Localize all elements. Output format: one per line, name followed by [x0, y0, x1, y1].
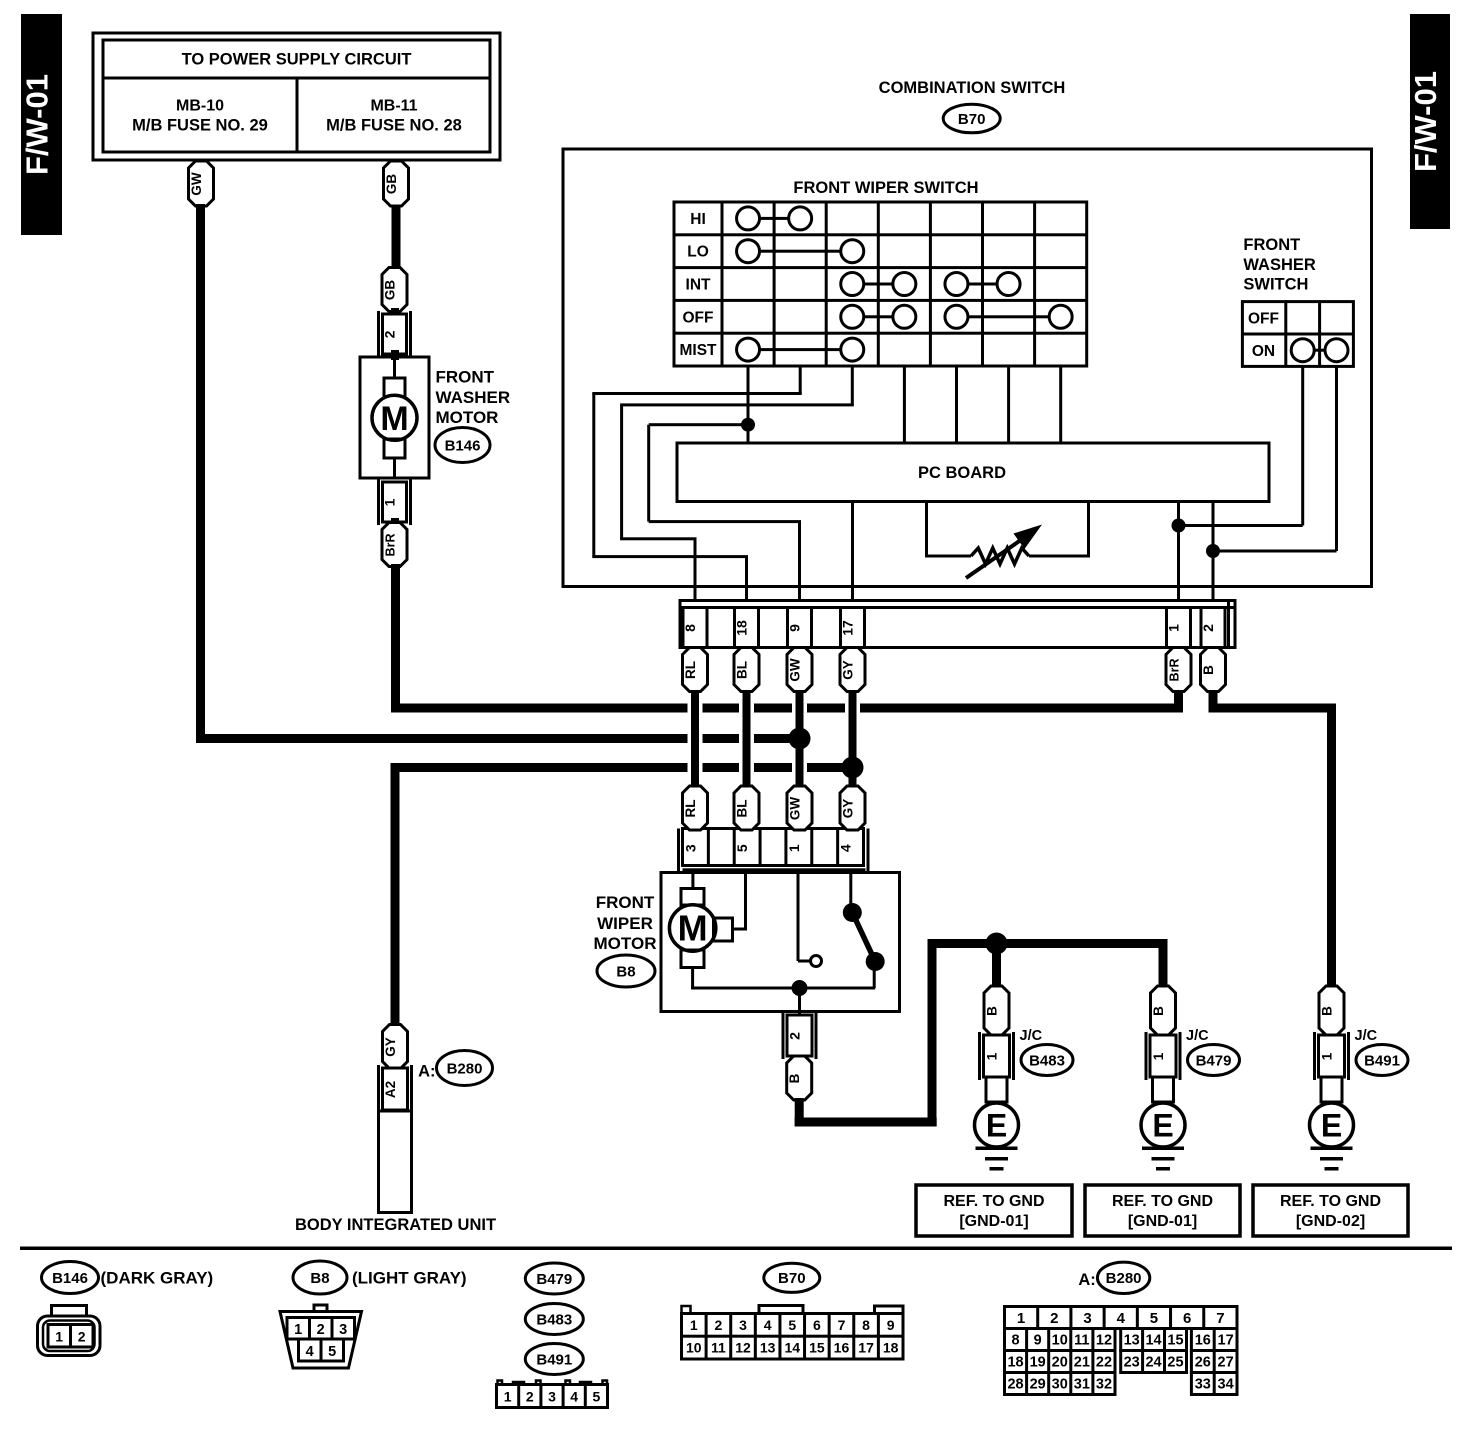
page label tab F/W-01 (right) — [1410, 14, 1450, 229]
svg-text:13: 13 — [1124, 1333, 1140, 1349]
washer motor brush (bottom) — [384, 439, 405, 458]
svg-text:(LIGHT GRAY): (LIGHT GRAY) — [352, 1269, 467, 1288]
svg-text:2: 2 — [787, 1032, 803, 1040]
svg-text:9: 9 — [887, 1317, 895, 1333]
wire: wiper switch col1 to PC board (with junction) — [747, 366, 750, 443]
svg-text:5: 5 — [1150, 1310, 1158, 1327]
svg-text:[GND-02]: [GND-02] — [1296, 1213, 1365, 1230]
svg-text:17: 17 — [858, 1340, 874, 1356]
variable resistor (wiper speed pot) on PC board — [925, 502, 928, 557]
svg-text:B280: B280 — [1106, 1270, 1142, 1287]
svg-text:WIPER: WIPER — [597, 914, 653, 933]
svg-text:11: 11 — [711, 1340, 726, 1356]
svg-text:18: 18 — [1007, 1355, 1023, 1371]
svg-text:1: 1 — [382, 498, 398, 506]
svg-text:27: 27 — [1218, 1355, 1234, 1371]
wire: wiper switch col2 to connector pin 18 (BL) — [799, 366, 802, 394]
svg-text:RL: RL — [683, 661, 698, 679]
MIST contacts: col1-col3 — [748, 348, 852, 351]
OFF contacts: col3-col4, col5-col7 — [852, 315, 904, 318]
svg-text:E: E — [986, 1108, 1007, 1144]
svg-text:B: B — [1320, 1006, 1335, 1016]
body integrated unit box — [379, 1111, 412, 1213]
connector B70 pin 9 — [788, 608, 812, 648]
svg-text:1: 1 — [1166, 624, 1182, 632]
wiper motor brush (top) — [681, 889, 704, 906]
connector B70 pin 17 — [841, 608, 865, 648]
svg-text:32: 32 — [1096, 1377, 1112, 1393]
svg-text:15: 15 — [809, 1340, 825, 1356]
svg-text:BL: BL — [735, 800, 750, 818]
connector oval B483 — [1021, 1045, 1073, 1076]
wire: wiper switch col4 to PC board — [903, 366, 906, 443]
svg-text:[GND-01]: [GND-01] — [1128, 1213, 1197, 1230]
svg-text:20: 20 — [1052, 1355, 1068, 1371]
svg-text:1: 1 — [690, 1317, 698, 1333]
svg-text:LO: LO — [687, 244, 709, 261]
svg-text:22: 22 — [1096, 1355, 1112, 1371]
svg-text:TO POWER SUPPLY CIRCUIT: TO POWER SUPPLY CIRCUIT — [182, 51, 412, 69]
wiper motor wire pin 5 — [744, 873, 747, 930]
washer switch ON contacts — [1303, 349, 1337, 352]
svg-text:13: 13 — [760, 1340, 776, 1356]
svg-text:B70: B70 — [958, 111, 986, 128]
legend connector drawing B146 (2-pin) — [52, 1306, 87, 1317]
svg-text:1: 1 — [1017, 1310, 1025, 1327]
ground terminal B491 — [1321, 1077, 1342, 1102]
svg-text:25: 25 — [1167, 1355, 1183, 1371]
svg-text:GY: GY — [383, 1037, 398, 1057]
svg-text:1: 1 — [786, 844, 802, 852]
svg-text:4: 4 — [570, 1389, 578, 1405]
svg-text:B: B — [985, 1006, 1000, 1016]
svg-text:B: B — [787, 1073, 802, 1083]
wire: PC board to connector pin 17 (GY) — [851, 502, 854, 601]
svg-text:16: 16 — [1195, 1333, 1211, 1349]
connector oval B70 — [943, 104, 1000, 133]
svg-text:A:: A: — [1078, 1271, 1095, 1289]
svg-text:28: 28 — [1007, 1377, 1023, 1393]
wire: washer switch ON col2 down to pin-2 wire — [1335, 366, 1338, 551]
wire color tag B (to B479) — [1151, 986, 1176, 1035]
svg-text:GB: GB — [383, 280, 398, 301]
washer motor pin 2 — [377, 311, 380, 357]
power supply block: TO POWER SUPPLY CIRCUIT — [93, 33, 500, 160]
wire color tag GB (at washer motor) — [382, 268, 407, 312]
wiper motor internal common wire — [691, 987, 875, 990]
connector oval B479 — [1188, 1045, 1240, 1076]
svg-text:BrR: BrR — [384, 534, 398, 557]
svg-text:MIST: MIST — [679, 342, 717, 359]
svg-text:FRONT WIPER SWITCH: FRONT WIPER SWITCH — [793, 179, 978, 197]
svg-text:RL: RL — [683, 800, 698, 818]
wire: wiper switch col3 to connector pin 8 (RL) — [851, 366, 854, 405]
svg-text:MB-11: MB-11 — [370, 98, 417, 115]
LO contacts: col1-col3 — [748, 250, 852, 253]
svg-text:4: 4 — [1117, 1310, 1126, 1327]
wire: PC board to connector pin 1 (BrR) — [1177, 502, 1180, 601]
legend connector drawing B8 (5-pin) — [314, 1305, 327, 1314]
svg-text:GW: GW — [788, 658, 803, 682]
svg-text:19: 19 — [1030, 1355, 1046, 1371]
wire color tag B (to B491) — [1319, 986, 1344, 1035]
svg-text:8: 8 — [862, 1317, 870, 1333]
svg-text:9: 9 — [1034, 1333, 1042, 1349]
svg-text:10: 10 — [686, 1340, 702, 1356]
svg-text:12: 12 — [735, 1340, 751, 1356]
wire: PC board to connector pin 2 (B) — [1212, 502, 1215, 601]
wire color tag B (to B483) — [984, 986, 1009, 1035]
legend connector oval B8 — [293, 1261, 347, 1294]
wiper motor park switch moving contact — [852, 913, 875, 962]
svg-text:J/C: J/C — [1186, 1028, 1209, 1044]
svg-text:7: 7 — [838, 1317, 846, 1333]
svg-text:12: 12 — [1096, 1333, 1112, 1349]
svg-text:M/B FUSE NO. 28: M/B FUSE NO. 28 — [326, 117, 462, 135]
svg-text:11: 11 — [1074, 1333, 1089, 1349]
legend connector oval B146 — [42, 1262, 99, 1294]
svg-text:14: 14 — [1145, 1333, 1161, 1349]
svg-text:(DARK GRAY): (DARK GRAY) — [101, 1269, 214, 1288]
connector oval B491 — [1356, 1045, 1408, 1076]
wire: wiper switch col6 to PC board — [1007, 366, 1010, 443]
ground terminal B479 — [1153, 1077, 1174, 1102]
wiper motor brush (bottom) — [681, 950, 704, 968]
svg-text:2: 2 — [78, 1329, 86, 1345]
connector oval B8 — [597, 955, 655, 987]
legend connector drawing J/C (5-pin strip) — [498, 1381, 503, 1385]
svg-text:3: 3 — [739, 1317, 747, 1333]
connector B70 pin row — [680, 601, 1235, 648]
svg-text:5: 5 — [788, 1317, 796, 1333]
svg-text:M/B FUSE NO. 29: M/B FUSE NO. 29 — [132, 117, 268, 135]
svg-text:5: 5 — [734, 844, 750, 852]
svg-text:1: 1 — [1150, 1052, 1166, 1060]
svg-text:17: 17 — [1218, 1333, 1234, 1349]
legend connector oval B70 — [764, 1263, 820, 1292]
svg-text:1: 1 — [294, 1322, 302, 1338]
svg-text:10: 10 — [1052, 1333, 1068, 1349]
svg-text:17: 17 — [840, 620, 856, 636]
svg-text:B146: B146 — [445, 438, 481, 455]
svg-text:6: 6 — [1183, 1310, 1191, 1327]
junction connector B483 pin 1 — [978, 1032, 981, 1080]
svg-text:E: E — [1152, 1108, 1173, 1144]
svg-text:3: 3 — [1083, 1310, 1091, 1327]
svg-text:INT: INT — [686, 277, 712, 294]
svg-text:GY: GY — [841, 799, 856, 819]
svg-text:B491: B491 — [1364, 1053, 1400, 1070]
junction dot washer col1 / pin 1 wire — [1172, 519, 1186, 533]
svg-text:2: 2 — [1200, 624, 1216, 632]
svg-text:4: 4 — [764, 1317, 772, 1333]
INT contacts: col3-col4, col5-col6 — [852, 283, 904, 286]
svg-text:26: 26 — [1195, 1355, 1211, 1371]
svg-text:2: 2 — [317, 1322, 325, 1338]
connector B8 pin row — [677, 829, 680, 874]
svg-text:5: 5 — [328, 1344, 336, 1360]
legend connector drawing B280 (34-pin) — [1005, 1307, 1238, 1329]
svg-text:B8: B8 — [616, 964, 635, 981]
legend connector oval B483 — [525, 1304, 583, 1335]
svg-text:B8: B8 — [310, 1270, 329, 1287]
wire: washer switch ON col1 down to pin-1 wire — [1301, 366, 1304, 525]
svg-text:E: E — [1321, 1108, 1342, 1144]
reference box GND-01 — [916, 1185, 1072, 1236]
svg-text:REF. TO GND: REF. TO GND — [943, 1193, 1044, 1210]
svg-text:REF. TO GND: REF. TO GND — [1280, 1193, 1381, 1210]
svg-text:29: 29 — [1030, 1377, 1046, 1393]
legend connector oval B491 — [525, 1344, 583, 1375]
svg-text:GW: GW — [189, 172, 204, 196]
front wiper motor box B8 — [661, 873, 900, 1012]
PC BOARD box — [677, 443, 1269, 502]
svg-text:1: 1 — [504, 1389, 512, 1405]
legend connector oval B280 — [1097, 1262, 1149, 1293]
svg-text:B479: B479 — [1196, 1053, 1232, 1070]
svg-text:BL: BL — [735, 661, 750, 679]
junction connector B479 pin 1 — [1145, 1032, 1148, 1080]
svg-text:B70: B70 — [778, 1270, 806, 1287]
svg-text:1: 1 — [55, 1329, 63, 1345]
svg-text:GW: GW — [788, 797, 803, 821]
svg-text:GY: GY — [841, 660, 856, 680]
washer motor pin 1 — [377, 479, 380, 525]
svg-text:9: 9 — [787, 624, 803, 632]
connector oval B146 — [435, 428, 490, 463]
ground symbol B483 — [976, 1147, 1018, 1151]
svg-text:M: M — [678, 908, 708, 949]
svg-text:2: 2 — [382, 330, 398, 338]
wiper motor pin 2 (bottom) — [782, 1012, 785, 1059]
legend separator line — [20, 1247, 1452, 1251]
svg-text:3: 3 — [339, 1322, 347, 1338]
svg-text:34: 34 — [1218, 1377, 1234, 1393]
svg-text:2: 2 — [1050, 1310, 1058, 1327]
svg-text:4: 4 — [306, 1344, 314, 1360]
wire: wiper switch col7 to PC board — [1059, 366, 1062, 443]
svg-text:2: 2 — [526, 1389, 534, 1405]
svg-text:A:: A: — [418, 1063, 435, 1081]
svg-text:18: 18 — [734, 620, 750, 636]
svg-text:WASHER: WASHER — [1243, 256, 1316, 274]
svg-text:B491: B491 — [536, 1352, 572, 1369]
legend connector drawing B70 (18-pin) — [682, 1306, 691, 1314]
svg-text:FRONT: FRONT — [596, 893, 655, 912]
svg-text:8: 8 — [682, 624, 698, 632]
ground symbol B491 — [1311, 1147, 1353, 1151]
svg-text:HI: HI — [690, 211, 706, 228]
ground symbol B479 — [1142, 1147, 1184, 1151]
svg-text:PC BOARD: PC BOARD — [918, 464, 1006, 482]
reference box GND-01 — [1085, 1185, 1240, 1236]
svg-text:21: 21 — [1074, 1355, 1090, 1371]
front wiper switch contact grid — [674, 202, 1087, 366]
svg-text:F/W-01: F/W-01 — [20, 74, 55, 175]
svg-text:OFF: OFF — [1248, 311, 1279, 328]
svg-text:MOTOR: MOTOR — [594, 934, 657, 953]
wire: junction col1 to connector pin 9 (GW) — [649, 423, 748, 426]
wire color tag BrR (washer motor) — [382, 523, 407, 567]
svg-text:MB-10: MB-10 — [176, 98, 224, 115]
wire color tag GY (body integrated unit) — [383, 1025, 408, 1069]
svg-text:3: 3 — [548, 1389, 556, 1405]
wire GB: power supply to washer motor — [392, 204, 401, 269]
svg-text:A2: A2 — [383, 1081, 398, 1098]
connector A2 (B280) — [377, 1065, 380, 1113]
svg-text:4: 4 — [838, 844, 854, 852]
reference box GND-02 — [1253, 1185, 1408, 1236]
svg-text:M: M — [380, 400, 408, 438]
svg-text:6: 6 — [813, 1317, 821, 1333]
connector B70 pin 2 — [1201, 608, 1225, 648]
svg-text:ON: ON — [1252, 343, 1275, 360]
wiper motor park switch open contact — [811, 956, 822, 967]
svg-text:J/C: J/C — [1355, 1028, 1378, 1044]
svg-text:5: 5 — [593, 1389, 601, 1405]
washer motor M symbol — [372, 395, 417, 440]
junction connector B491 pin 1 — [1313, 1032, 1316, 1080]
combination switch box B70 — [563, 149, 1372, 587]
svg-text:30: 30 — [1052, 1377, 1068, 1393]
svg-text:B146: B146 — [52, 1270, 88, 1287]
legend connector oval B479 — [525, 1263, 583, 1294]
svg-text:J/C: J/C — [1020, 1028, 1043, 1044]
connector B70 pin 18 — [735, 608, 759, 648]
svg-text:1: 1 — [984, 1052, 1000, 1060]
svg-text:B483: B483 — [1029, 1053, 1065, 1070]
svg-text:GB: GB — [384, 174, 399, 195]
wiper motor speed brush box — [714, 918, 733, 941]
svg-text:1: 1 — [1319, 1052, 1335, 1060]
svg-text:B483: B483 — [536, 1312, 572, 1329]
svg-text:24: 24 — [1145, 1355, 1161, 1371]
svg-text:FRONT: FRONT — [1243, 236, 1300, 254]
svg-text:[GND-01]: [GND-01] — [959, 1213, 1028, 1230]
page label tab F/W-01 (left) — [21, 14, 62, 235]
connector B70 pin 8 — [683, 608, 707, 648]
svg-text:B: B — [1201, 665, 1216, 675]
svg-text:18: 18 — [883, 1340, 899, 1356]
svg-text:3: 3 — [682, 844, 698, 852]
svg-text:COMBINATION SWITCH: COMBINATION SWITCH — [879, 79, 1066, 97]
wiper motor armature wire pin 3 — [691, 873, 694, 889]
svg-text:BODY INTEGRATED UNIT: BODY INTEGRATED UNIT — [295, 1216, 496, 1234]
wire color tag GB (at fuse) — [384, 161, 409, 206]
front washer motor box B146 — [360, 357, 429, 478]
svg-text:14: 14 — [784, 1340, 800, 1356]
junction dot col1/PC-board/pin9 — [741, 418, 755, 432]
svg-text:8: 8 — [1012, 1333, 1020, 1349]
svg-text:FRONT: FRONT — [436, 368, 495, 387]
svg-text:B: B — [1151, 1006, 1166, 1016]
connector B70 pin 1 — [1167, 608, 1191, 648]
svg-text:31: 31 — [1074, 1377, 1090, 1393]
svg-text:MOTOR: MOTOR — [436, 408, 499, 427]
svg-text:33: 33 — [1195, 1377, 1211, 1393]
ground terminal B483 — [986, 1077, 1007, 1102]
HI contacts: col1-col2 — [748, 217, 800, 220]
wire: wiper switch col5 to PC board — [955, 366, 958, 443]
wiper motor M symbol — [669, 905, 715, 951]
front washer switch contact grid — [1242, 302, 1353, 367]
svg-text:OFF: OFF — [683, 309, 714, 326]
svg-text:23: 23 — [1124, 1355, 1140, 1371]
wire color tag B (wiper motor) — [787, 1056, 812, 1100]
svg-text:F/W-01: F/W-01 — [1408, 71, 1443, 172]
wiper motor park switch wire pin 4 — [849, 873, 852, 913]
svg-text:B479: B479 — [536, 1271, 572, 1288]
svg-text:15: 15 — [1167, 1333, 1183, 1349]
svg-text:16: 16 — [834, 1340, 850, 1356]
svg-text:BrR: BrR — [1168, 659, 1182, 682]
svg-text:REF. TO GND: REF. TO GND — [1112, 1193, 1213, 1210]
washer motor brush (top) — [384, 378, 405, 397]
svg-text:SWITCH: SWITCH — [1243, 276, 1308, 294]
wiper motor park switch wire pin 1 — [797, 873, 800, 962]
junction dot washer col2 / pin 2 wire — [1206, 544, 1220, 558]
svg-text:B280: B280 — [447, 1061, 483, 1078]
junction dot wiper motor common — [792, 980, 808, 996]
svg-text:WASHER: WASHER — [436, 388, 511, 407]
svg-text:2: 2 — [715, 1317, 723, 1333]
svg-text:7: 7 — [1216, 1310, 1224, 1327]
